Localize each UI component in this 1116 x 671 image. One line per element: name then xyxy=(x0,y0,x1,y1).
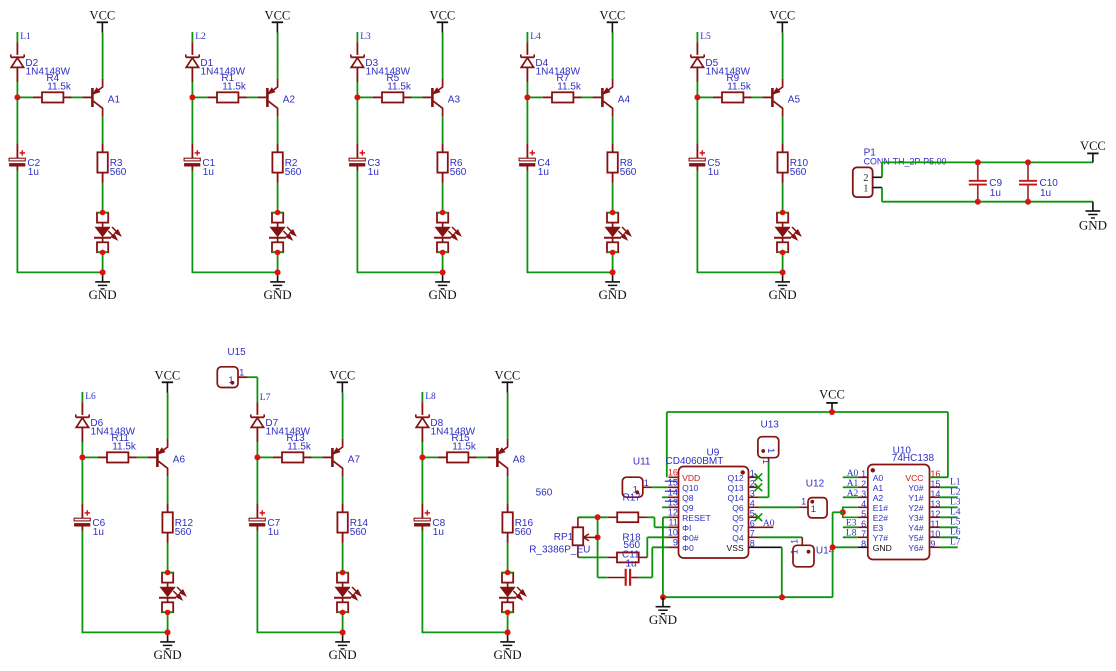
svg-text:1u: 1u xyxy=(268,527,279,538)
svg-text:Y0#: Y0# xyxy=(908,483,924,493)
svg-text:A3: A3 xyxy=(448,95,461,106)
svg-text:Q14: Q14 xyxy=(727,493,743,503)
svg-text:A4: A4 xyxy=(618,95,631,106)
svg-text:E3: E3 xyxy=(873,523,884,533)
svg-text:L1: L1 xyxy=(20,32,31,42)
svg-text:16: 16 xyxy=(668,468,678,478)
svg-text:1u: 1u xyxy=(538,167,549,178)
svg-text:1: 1 xyxy=(765,448,776,453)
svg-text:A2: A2 xyxy=(283,95,296,106)
svg-text:1u: 1u xyxy=(433,527,444,538)
svg-text:1u: 1u xyxy=(990,188,1001,199)
svg-text:RP1: RP1 xyxy=(554,532,574,543)
svg-text:L3: L3 xyxy=(360,32,371,42)
svg-text:1u: 1u xyxy=(93,527,104,538)
svg-text:L8: L8 xyxy=(846,528,857,538)
svg-text:1u: 1u xyxy=(708,167,719,178)
svg-text:3: 3 xyxy=(750,489,755,499)
svg-text:Y4#: Y4# xyxy=(908,523,924,533)
svg-text:1: 1 xyxy=(239,368,244,378)
svg-text:13: 13 xyxy=(668,498,678,508)
svg-text:VCC: VCC xyxy=(155,369,181,383)
svg-text:E2#: E2# xyxy=(873,513,889,523)
svg-text:560: 560 xyxy=(285,167,302,178)
svg-text:GND: GND xyxy=(429,287,457,302)
svg-text:A1: A1 xyxy=(108,95,121,106)
svg-text:L6: L6 xyxy=(950,528,961,538)
svg-text:11.5k: 11.5k xyxy=(387,82,412,93)
svg-text:Q9: Q9 xyxy=(682,503,694,513)
svg-text:Y3#: Y3# xyxy=(908,513,924,523)
svg-text:E3: E3 xyxy=(846,518,857,528)
svg-text:GND: GND xyxy=(154,647,182,662)
svg-text:Φ0#: Φ0# xyxy=(682,533,699,543)
svg-text:1: 1 xyxy=(750,469,755,479)
svg-text:ΦI: ΦI xyxy=(682,523,691,533)
svg-text:560: 560 xyxy=(175,527,192,538)
svg-text:A1: A1 xyxy=(847,479,859,489)
svg-text:L8: L8 xyxy=(425,392,436,402)
svg-text:R_3386P_EU: R_3386P_EU xyxy=(529,544,590,555)
svg-text:1: 1 xyxy=(790,549,801,554)
svg-text:11: 11 xyxy=(669,518,678,528)
svg-text:GND: GND xyxy=(873,543,892,553)
svg-text:14: 14 xyxy=(668,488,678,498)
svg-text:CD4060BMT: CD4060BMT xyxy=(666,456,724,467)
svg-text:VCC: VCC xyxy=(905,473,923,483)
svg-text:A7: A7 xyxy=(348,455,361,466)
svg-text:GND: GND xyxy=(494,647,522,662)
svg-text:Y1#: Y1# xyxy=(908,493,924,503)
svg-text:A6: A6 xyxy=(173,455,186,466)
svg-text:1: 1 xyxy=(644,478,649,488)
svg-text:Q7: Q7 xyxy=(732,523,744,533)
svg-text:Q6: Q6 xyxy=(732,503,744,513)
svg-text:GND: GND xyxy=(1079,218,1107,233)
svg-text:L2: L2 xyxy=(195,32,206,42)
svg-text:74HC138: 74HC138 xyxy=(892,453,935,464)
svg-text:GND: GND xyxy=(649,612,677,627)
svg-text:1: 1 xyxy=(811,504,816,515)
svg-text:1u: 1u xyxy=(1040,188,1051,199)
svg-text:560: 560 xyxy=(450,167,467,178)
svg-text:A1: A1 xyxy=(873,483,884,493)
svg-text:1u: 1u xyxy=(626,559,637,570)
svg-text:Y7#: Y7# xyxy=(873,533,889,543)
svg-text:560: 560 xyxy=(620,167,637,178)
svg-text:560: 560 xyxy=(350,527,367,538)
svg-text:9: 9 xyxy=(673,538,678,548)
svg-text:1u: 1u xyxy=(28,167,39,178)
svg-text:Q12: Q12 xyxy=(727,473,743,483)
svg-text:GND: GND xyxy=(329,647,357,662)
svg-text:RESET: RESET xyxy=(682,513,711,523)
svg-text:L6: L6 xyxy=(85,392,96,402)
svg-text:11.5k: 11.5k xyxy=(557,82,582,93)
svg-text:A0: A0 xyxy=(847,469,859,479)
svg-text:11.5k: 11.5k xyxy=(452,442,477,453)
svg-text:L2: L2 xyxy=(950,488,961,498)
svg-text:L3: L3 xyxy=(950,498,961,508)
svg-text:VCC: VCC xyxy=(90,9,116,23)
svg-text:15: 15 xyxy=(668,478,678,488)
svg-text:L1: L1 xyxy=(950,478,961,488)
svg-text:560: 560 xyxy=(110,167,127,178)
svg-text:11.5k: 11.5k xyxy=(222,82,247,93)
svg-text:U13: U13 xyxy=(761,419,780,430)
svg-text:U15: U15 xyxy=(227,347,246,358)
svg-text:Q10: Q10 xyxy=(682,483,698,493)
svg-text:GND: GND xyxy=(769,287,797,302)
svg-text:VSS: VSS xyxy=(726,543,743,553)
svg-text:Q13: Q13 xyxy=(727,483,743,493)
svg-text:VCC: VCC xyxy=(819,387,845,401)
svg-text:1: 1 xyxy=(761,459,771,464)
svg-text:1: 1 xyxy=(863,184,868,195)
svg-text:10: 10 xyxy=(668,528,678,538)
svg-text:VCC: VCC xyxy=(600,9,626,23)
svg-text:E1#: E1# xyxy=(873,503,889,513)
svg-text:1u: 1u xyxy=(203,167,214,178)
svg-text:VDD: VDD xyxy=(682,473,700,483)
svg-text:1u: 1u xyxy=(368,167,379,178)
svg-text:L4: L4 xyxy=(950,508,961,518)
svg-text:2: 2 xyxy=(863,173,868,184)
svg-text:560: 560 xyxy=(515,527,532,538)
svg-text:L5: L5 xyxy=(700,32,711,42)
svg-text:VCC: VCC xyxy=(265,9,291,23)
svg-text:560: 560 xyxy=(790,167,807,178)
svg-text:L4: L4 xyxy=(530,32,541,42)
svg-text:GND: GND xyxy=(89,287,117,302)
svg-text:A0: A0 xyxy=(763,519,775,529)
svg-text:560: 560 xyxy=(536,488,553,499)
svg-text:Q5: Q5 xyxy=(732,513,744,523)
svg-text:Y5#: Y5# xyxy=(908,533,924,543)
svg-text:Φ0: Φ0 xyxy=(682,543,694,553)
svg-text:L5: L5 xyxy=(950,518,961,528)
svg-text:VCC: VCC xyxy=(770,9,796,23)
svg-text:R17: R17 xyxy=(623,493,642,504)
svg-text:A8: A8 xyxy=(513,455,526,466)
svg-text:2: 2 xyxy=(750,479,755,489)
svg-text:L7: L7 xyxy=(260,393,271,403)
svg-text:U11: U11 xyxy=(633,456,651,467)
svg-text:Q4: Q4 xyxy=(732,533,744,543)
svg-text:4: 4 xyxy=(750,499,755,509)
svg-text:VCC: VCC xyxy=(495,369,521,383)
svg-text:A2: A2 xyxy=(847,489,859,499)
svg-text:11.5k: 11.5k xyxy=(287,442,312,453)
svg-text:A5: A5 xyxy=(788,95,801,106)
svg-text:VCC: VCC xyxy=(1080,139,1106,153)
svg-text:5: 5 xyxy=(750,509,755,519)
svg-text:1: 1 xyxy=(801,497,806,507)
svg-text:Y2#: Y2# xyxy=(908,503,924,513)
svg-text:L7: L7 xyxy=(950,538,961,548)
svg-text:A0: A0 xyxy=(873,473,884,483)
svg-text:7: 7 xyxy=(750,529,755,539)
svg-text:11.5k: 11.5k xyxy=(727,82,752,93)
svg-text:A2: A2 xyxy=(873,493,884,503)
svg-text:U12: U12 xyxy=(806,479,825,490)
svg-text:GND: GND xyxy=(264,287,292,302)
svg-text:11.5k: 11.5k xyxy=(47,82,72,93)
svg-text:12: 12 xyxy=(668,508,678,518)
svg-text:VCC: VCC xyxy=(330,369,356,383)
svg-text:VCC: VCC xyxy=(430,9,456,23)
svg-text:11.5k: 11.5k xyxy=(112,442,137,453)
svg-text:Y6#: Y6# xyxy=(908,543,924,553)
svg-text:Q8: Q8 xyxy=(682,493,694,503)
svg-text:1: 1 xyxy=(790,539,800,544)
svg-text:GND: GND xyxy=(599,287,627,302)
